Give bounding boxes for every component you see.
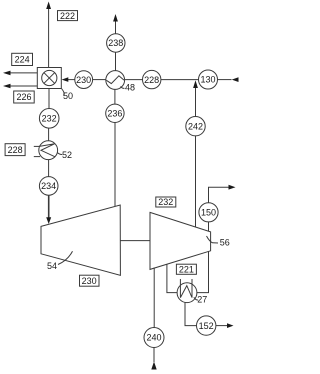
arrow up 238 outlet <box>113 14 118 22</box>
svg-text:224: 224 <box>15 55 30 65</box>
wire 152 outlet right <box>216 325 229 327</box>
arrow left into mixer 50 <box>62 77 69 82</box>
wire node 236 to turbine 54 <box>114 123 116 207</box>
wire node 150 to compressor 56 <box>208 222 210 231</box>
label box 228 <box>5 144 25 156</box>
arrow left 224 <box>3 71 11 76</box>
arrow up node 222 <box>46 2 51 10</box>
label box 230 <box>80 275 100 286</box>
wire inlet from right to 130 <box>218 79 232 81</box>
node 236 <box>106 104 124 122</box>
wire 27 to node 152 <box>185 303 197 326</box>
svg-text:232: 232 <box>158 197 173 207</box>
svg-text:52: 52 <box>62 150 72 160</box>
svg-text:242: 242 <box>188 121 203 131</box>
svg-text:54: 54 <box>47 261 57 271</box>
node 150 <box>199 203 218 222</box>
wire 48 to node 238 <box>115 52 117 70</box>
svg-text:230: 230 <box>76 75 91 85</box>
wire 226 outlet left <box>10 85 38 87</box>
wire 240 inlet from bottom <box>153 348 155 363</box>
arrow up junction into 130 line <box>193 80 198 88</box>
wire mixer 50 to node 232 <box>48 89 50 109</box>
wire 224 outlet left <box>10 72 38 74</box>
wire 48 to node 236 <box>114 89 116 104</box>
wire compressor 56 to aftercooler 27 right leg <box>197 252 209 293</box>
node 242 <box>186 117 205 136</box>
wire 230 to recuperator 48 <box>93 79 106 81</box>
wire compressor 56 to aftercooler 27 left leg <box>167 264 177 292</box>
svg-text:56: 56 <box>220 238 230 248</box>
svg-text:240: 240 <box>146 333 161 343</box>
arrow left 226 <box>3 84 11 89</box>
node 234 <box>39 177 58 196</box>
svg-text:50: 50 <box>63 91 73 101</box>
wire 52 to node 234 <box>48 160 50 177</box>
label box 222 <box>58 11 78 21</box>
svg-text:228: 228 <box>144 75 159 85</box>
svg-text:48: 48 <box>125 83 135 93</box>
node 130 <box>199 70 218 89</box>
wire 150 outlet right <box>209 187 230 203</box>
arrow down into turbine 54 <box>46 217 51 224</box>
arrow right 150 outlet <box>229 185 236 190</box>
node 232 <box>39 109 59 129</box>
arrow right 152 outlet <box>227 323 234 328</box>
wire 242 to compressor 56 <box>195 136 197 227</box>
svg-text:150: 150 <box>201 208 216 218</box>
wire 234 to turbine 54 <box>48 195 50 218</box>
svg-text:130: 130 <box>200 75 215 85</box>
leader 50 <box>62 89 65 96</box>
node 152 <box>197 316 216 335</box>
svg-text:238: 238 <box>108 38 123 48</box>
svg-text:234: 234 <box>41 181 56 191</box>
leader 48 <box>121 87 125 89</box>
svg-text:232: 232 <box>42 114 57 124</box>
leader 56 <box>207 236 219 243</box>
wire 228 to node 130 <box>161 79 199 81</box>
svg-text:228: 228 <box>8 145 23 155</box>
label box 232 <box>156 197 176 207</box>
node 238 <box>107 34 125 52</box>
svg-text:226: 226 <box>16 92 31 102</box>
svg-text:222: 222 <box>60 11 75 21</box>
wire top outlet from mixer 50 <box>48 9 50 68</box>
wire 242 up to junction <box>195 88 197 117</box>
label box 221 <box>176 264 196 274</box>
node 228 <box>143 70 161 88</box>
turbine 54 <box>41 205 120 275</box>
arrow left inlet 130 <box>232 77 239 82</box>
node 240 <box>144 328 164 348</box>
shaft wire turbine 54 to compressor 56 <box>120 240 150 242</box>
wire 232 to cooler 52 <box>48 128 50 141</box>
leader 52 <box>57 153 62 155</box>
mixer 50 <box>37 68 61 89</box>
wire compressor 56 to node 240 <box>153 268 155 328</box>
arrow up inlet 240 <box>151 362 156 370</box>
svg-text:221: 221 <box>179 265 194 275</box>
svg-text:152: 152 <box>199 321 214 331</box>
label box 224 <box>12 53 33 65</box>
wire 238 outlet up <box>115 21 117 34</box>
svg-text:27: 27 <box>197 295 207 305</box>
wire 48 to node 228 <box>125 79 143 81</box>
leader 54 <box>58 251 73 264</box>
label box 226 <box>14 91 35 103</box>
svg-text:236: 236 <box>107 109 122 119</box>
svg-text:230: 230 <box>82 276 97 286</box>
recuperator 48 <box>106 71 125 90</box>
cooler 52 <box>39 141 58 160</box>
aftercooler 27 <box>177 283 197 303</box>
node 230 <box>75 71 93 89</box>
leader 27 <box>194 297 198 300</box>
wire 230 to mixer 50 <box>67 79 75 81</box>
compressor 56 <box>150 212 211 269</box>
